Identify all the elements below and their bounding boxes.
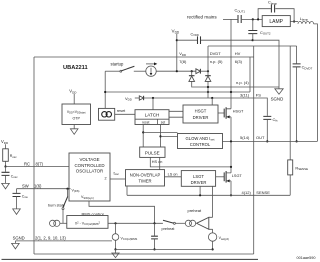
svg-text:HSGT: HSGT [233, 109, 244, 113]
svg-text:n.p. (4): n.p. (4) [236, 80, 249, 85]
svg-text:GLOW AND Iset: GLOW AND Iset [186, 136, 215, 142]
switch preheat [162, 208, 202, 231]
block X2-V2 [67, 211, 163, 228]
pin cell VDD 7(8) [179, 51, 187, 64]
wire SENSE external [254, 194, 291, 196]
wire OUT external [254, 140, 318, 142]
block HSGT DRIVER [183, 105, 218, 123]
ground SGND right [271, 87, 284, 102]
svg-text:Cosc: Cosc [11, 175, 18, 180]
svg-text:Rosc: Rosc [10, 154, 17, 159]
svg-text:VDD: VDD [1, 139, 9, 145]
block VCO [69, 153, 155, 223]
wire [176, 34, 178, 72]
svg-text:fosc: fosc [114, 172, 120, 177]
svg-text:SENSE: SENSE [256, 190, 270, 195]
svg-text:Vset(ph): Vset(ph) [219, 236, 230, 241]
svg-text:set: set [161, 121, 165, 125]
svg-text:OSCILLATOR: OSCILLATOR [76, 169, 103, 174]
svg-text:7(8): 7(8) [179, 59, 187, 64]
svg-text:SW: SW [22, 184, 29, 189]
svg-text:V(DS): V(DS) [72, 189, 80, 194]
svg-text:VCO(ref)RMS: VCO(ref)RMS [121, 237, 138, 242]
resistor RSENSE [288, 46, 308, 195]
svg-text:2(1, 2, 9, 10, 13): 2(1, 2, 9, 10, 13) [35, 235, 66, 240]
capacitor CVDD [177, 32, 253, 44]
multiplier circles 2 [185, 220, 195, 226]
capacitor CDVDT [293, 46, 313, 142]
svg-text:HV: HV [235, 51, 241, 56]
svg-text:startup: startup [111, 62, 124, 67]
svg-text:PULSE: PULSE [145, 151, 160, 156]
block GLOW AND Iset CONTROL [178, 134, 254, 149]
bottom rail [2, 258, 259, 260]
svg-text:3(11): 3(11) [240, 93, 250, 98]
svg-text:HS on: HS on [152, 160, 163, 164]
svg-text:n.p. (5): n.p. (5) [210, 59, 223, 64]
svg-text:001aae590: 001aae590 [296, 256, 315, 260]
svg-text:VDD: VDD [179, 51, 186, 57]
wire to SGND drop [253, 40, 279, 87]
svg-text:4(12): 4(12) [242, 190, 252, 195]
svg-text:VSW(syn): VSW(syn) [81, 195, 94, 200]
svg-text:Clamp: Clamp [268, 0, 277, 5]
transistor LSGT [216, 171, 243, 196]
comparator triangle [197, 186, 213, 233]
diode D1 horizontal [196, 69, 208, 74]
svg-text:reset: reset [142, 121, 149, 125]
svg-text:6(3): 6(3) [235, 59, 243, 64]
svg-text:LAMP: LAMP [269, 19, 283, 25]
svg-text:DRIVER: DRIVER [191, 180, 207, 185]
svg-text:LATCH: LATCH [145, 113, 160, 118]
diode D2 vertical left [189, 71, 279, 87]
svg-text:burn state: burn state [48, 204, 65, 208]
svg-text:preheat: preheat [162, 227, 176, 231]
svg-text:UBA2211: UBA2211 [63, 65, 88, 71]
svg-text:CONTROL: CONTROL [190, 142, 211, 147]
IC boundary UBA2211 [34, 46, 254, 254]
pin SGND 2(1,2,9,10,13) [12, 235, 112, 249]
transistor HSGT [218, 107, 244, 173]
switch burn state [48, 188, 69, 224]
multiplier circles [50, 220, 67, 226]
node B junction [252, 39, 254, 41]
block NON-OVERLAP TIMER [126, 170, 182, 196]
svg-text:RSENSE: RSENSE [295, 165, 308, 171]
block OTP [62, 89, 91, 135]
svg-text:TIMER: TIMER [138, 179, 151, 184]
svg-text:VDD<VDDstart: VDD<VDDstart [67, 110, 86, 115]
pin cell HV 6(3) [231, 19, 250, 108]
node VDD internal [176, 70, 178, 72]
svg-text:5(14): 5(14) [240, 135, 250, 140]
svg-text:VOLTAGE: VOLTAGE [79, 157, 99, 162]
wire HV to HSGT drain [105, 71, 250, 92]
capacitor internal [151, 223, 158, 250]
capacitor Cfs [254, 98, 278, 142]
svg-text:DVDT: DVDT [210, 51, 221, 56]
svg-text:Csw: Csw [22, 194, 28, 199]
svg-text:DRIVER: DRIVER [193, 115, 209, 120]
svg-text:CDVDT: CDVDT [302, 65, 313, 71]
svg-text:SGND: SGND [271, 97, 284, 102]
svg-text:VDD: VDD [125, 96, 132, 102]
svg-text:CONTROLLED: CONTROLLED [74, 163, 104, 168]
inductor Llamp [290, 16, 317, 141]
svg-text:rectified mains: rectified mains [187, 15, 217, 20]
svg-text:CVDD: CVDD [191, 32, 199, 37]
source Vset(ph) [208, 233, 229, 251]
svg-text:Llamp: Llamp [300, 16, 309, 22]
wire SENSE internal [127, 194, 254, 196]
svg-text:FS: FS [256, 92, 261, 97]
svg-text:OUT: OUT [256, 135, 265, 140]
svg-text:NON-OVERLAP: NON-OVERLAP [130, 173, 161, 178]
svg-text:2: 2 [105, 176, 107, 180]
internal ground bus [116, 248, 213, 250]
svg-text:LSGT: LSGT [193, 174, 204, 179]
svg-text:COUT2: COUT2 [260, 30, 271, 36]
wire [223, 18, 237, 20]
svg-text:LSGT: LSGT [232, 174, 243, 178]
dv/dt net wire [208, 45, 297, 47]
svg-text:reset: reset [117, 109, 126, 113]
svg-text:OTP: OTP [73, 117, 81, 121]
capacitor COUT1 [235, 8, 263, 23]
svg-text:preheat: preheat [188, 208, 202, 213]
diode D3 vertical right [205, 46, 211, 98]
block PULSE [140, 147, 232, 170]
svg-text:COUT1: COUT1 [235, 8, 246, 14]
svg-text:HSGT: HSGT [195, 109, 207, 114]
pin RC 8(7) [1, 139, 69, 189]
block Iref [99, 91, 136, 120]
pin cell DVDT n.p.(5) [210, 51, 223, 64]
capacitor COUT2 [248, 18, 271, 40]
svg-text:Cfs: Cfs [273, 117, 279, 123]
svg-text:SGND: SGND [13, 235, 25, 240]
LAMP [257, 16, 295, 27]
block LATCH [135, 110, 183, 147]
svg-text:RC: RC [24, 161, 30, 166]
svg-text:VDD: VDD [69, 89, 77, 95]
svg-text:8(7): 8(7) [36, 161, 44, 166]
svg-text:1(6): 1(6) [34, 184, 42, 189]
svg-text:LS on: LS on [168, 173, 178, 177]
capacitor Clamp [258, 0, 294, 21]
diode D4 VDD to FS [125, 96, 254, 110]
startup current source [105, 62, 196, 77]
block LSGT DRIVER [181, 171, 215, 187]
pin SW 1(6) [13, 184, 71, 215]
source VCO(ref)RMS [112, 223, 138, 257]
